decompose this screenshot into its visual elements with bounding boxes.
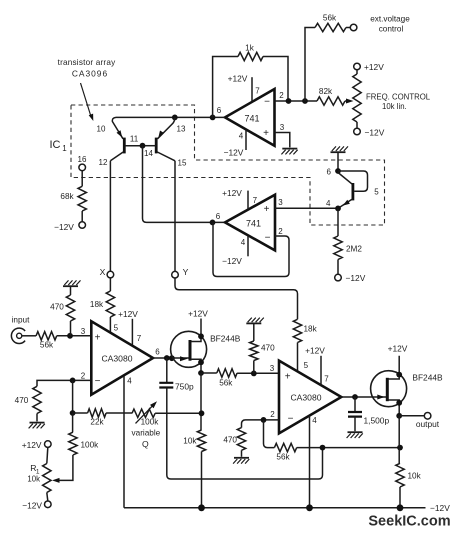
svg-text:3: 3 — [280, 123, 285, 132]
wire: 741 #1 output (pin 6) to transistor array emitters — [116, 116, 225, 118]
svg-text:BF244B: BF244B — [210, 334, 241, 344]
resistor 56k (input) — [22, 332, 92, 350]
dashed outline: transistor array CA3096 (IC1) — [71, 105, 385, 225]
svg-text:1k: 1k — [245, 44, 255, 53]
wire: pin 4 down to -12V rail — [123, 376, 125, 508]
node: pin 2 junction (CA3080 #1) — [70, 372, 86, 384]
resistor 100k (to R1 wiper) — [56, 413, 99, 480]
svg-text:transistor array: transistor array — [58, 58, 117, 67]
annotation: transistor array CA3096 with arrow — [58, 58, 117, 121]
wire: pin2 node up to 56k ext control — [305, 28, 315, 102]
svg-text:−12V: −12V — [430, 503, 450, 513]
svg-text:BF244B: BF244B — [412, 373, 443, 383]
wire: 741 #1 pin 3 to ground — [275, 133, 290, 148]
svg-text:10k: 10k — [183, 437, 197, 446]
node: output / 750p junction — [164, 355, 175, 361]
wire: feedback loop right side down to pin 2 — [263, 57, 288, 102]
svg-text:7: 7 — [253, 196, 258, 205]
svg-text:82k: 82k — [319, 87, 333, 96]
terminal -12V (freq control bottom) — [354, 128, 385, 138]
pin 4 label (CA3080 #1) — [127, 377, 132, 386]
node: feedback junction — [70, 410, 76, 416]
svg-text:6: 6 — [327, 168, 332, 177]
resistor 56k (ext voltage control) — [315, 14, 350, 32]
terminal +12V (R1 top) — [22, 440, 51, 450]
node: pin 3 junction (CA3080 #2) — [251, 364, 275, 376]
node: pin 2 junction — [261, 417, 267, 423]
transistor Q1 (array pins 10,11,12) PNP left — [97, 117, 143, 167]
wire: bases to 741 #2 output — [143, 146, 226, 223]
pin 2 label (741 #2) — [278, 227, 283, 236]
svg-text:100k: 100k — [141, 418, 160, 427]
ground (741 #1 pin 3) — [281, 149, 297, 155]
node: feedback / pin 2 junction — [286, 98, 292, 104]
ground (1,500p) — [347, 432, 363, 438]
svg-text:18k: 18k — [304, 325, 318, 334]
transistor Q3 (array pins 6,4,5) diode-connected — [326, 168, 379, 209]
node: common base junction (pins 11,14) — [140, 143, 146, 149]
JFET T2 BF244B output buffer — [371, 356, 443, 416]
resistor 470 (CA3080 #2 pin 3 to ground) — [250, 323, 276, 373]
ground (above Q3 collector) — [331, 146, 349, 152]
svg-text:+12V: +12V — [22, 440, 42, 450]
svg-text:ext.voltage: ext.voltage — [370, 15, 410, 24]
node: output divider junction — [397, 445, 403, 451]
pin 6 label (741 #1) — [217, 106, 222, 115]
svg-text:Y: Y — [183, 267, 189, 277]
svg-text:16: 16 — [78, 155, 87, 164]
resistor 10k (output divider) — [396, 463, 422, 508]
svg-text:56k: 56k — [40, 341, 54, 350]
ground (470 at pin 2) — [29, 423, 45, 429]
op-amp U3 741 (lower, points left) — [225, 195, 275, 251]
svg-text:−12V: −12V — [54, 222, 74, 232]
svg-text:13: 13 — [177, 125, 186, 134]
node: T2 source crosses circle — [396, 400, 402, 406]
potentiometer R1 10k — [27, 447, 51, 501]
svg-text:2: 2 — [270, 410, 275, 419]
resistor 82k (to freq control wiper) — [317, 87, 354, 105]
JFET T1 BF244B source follower — [171, 319, 241, 374]
svg-text:CA3080: CA3080 — [101, 354, 132, 364]
svg-text:100k: 100k — [81, 441, 100, 450]
resistor 2M2 — [334, 208, 363, 274]
resistor 56k (T1 source to CA3080 #2 pin 3) — [201, 369, 279, 388]
wire: collector pin 12 down to node X — [109, 161, 111, 271]
wire: CA3080 #1 pin 2 to 470 — [37, 380, 91, 386]
node: CA3080 #1 pin 3 junction — [67, 327, 86, 339]
svg-text:6: 6 — [217, 106, 222, 115]
node: Q3 emitter junction (pin 4) — [335, 206, 341, 212]
svg-text:SeekIC.com: SeekIC.com — [368, 514, 450, 530]
svg-text:15: 15 — [178, 159, 187, 168]
pin 3 label (741 #1) — [280, 123, 285, 132]
svg-text:14: 14 — [144, 149, 153, 158]
svg-text:56k: 56k — [219, 379, 233, 388]
svg-text:741: 741 — [244, 114, 259, 124]
svg-text:+12V: +12V — [364, 62, 384, 72]
capacitor 750p — [159, 358, 322, 479]
transistor Q2 (array pins 13,14,15) PNP right — [143, 117, 187, 167]
op-amp U2 741 (upper, points left) — [225, 89, 275, 146]
potentiometer FREQ CONTROL 10k lin — [353, 70, 431, 128]
svg-text:+: + — [263, 128, 269, 139]
svg-text:3: 3 — [270, 364, 275, 373]
resistor 470 (pin 2 to ground) — [15, 386, 42, 421]
svg-text:2: 2 — [279, 91, 284, 100]
svg-text:741: 741 — [246, 219, 261, 229]
pin 7 +12V supply (741 #1) — [228, 74, 261, 102]
resistor 68k (pin 16 to -12V) — [60, 171, 86, 222]
pin 7 +12V supply (CA3080 #2) — [305, 346, 329, 386]
node Y terminal — [172, 267, 189, 278]
wire: feedback loop left side (pin 6 up) — [213, 57, 238, 118]
svg-text:+12V: +12V — [222, 188, 242, 198]
resistor 56k (pin 2 feedback from output divider) — [264, 420, 401, 462]
wire: T1 source trunk down — [200, 373, 202, 430]
svg-text:−12V: −12V — [222, 256, 242, 266]
resistor 22k — [73, 409, 132, 427]
pin 5 label (CA3080 #2) — [304, 361, 309, 370]
node: drain crosses circle — [198, 333, 204, 339]
svg-text:+12V: +12V — [188, 309, 208, 319]
svg-text:−: − — [265, 233, 271, 244]
terminal: array pin 16 — [78, 155, 87, 171]
svg-text:output: output — [416, 419, 440, 429]
svg-text:7: 7 — [137, 334, 142, 343]
+12V label (T1 drain) — [188, 309, 208, 319]
svg-text:variable: variable — [132, 429, 161, 438]
variable resistor 100k (Q adjust) — [132, 401, 202, 449]
svg-text:10k: 10k — [408, 472, 422, 481]
svg-text:4: 4 — [127, 377, 132, 386]
svg-text:+: + — [264, 204, 270, 215]
label IC1 — [50, 139, 68, 153]
svg-text:2: 2 — [81, 372, 86, 381]
wire: output node down through divider — [398, 416, 400, 464]
svg-text:11: 11 — [130, 135, 139, 144]
wiper arrow into R1 — [52, 478, 60, 483]
node: 100k variable junction — [199, 410, 205, 416]
svg-text:−12V: −12V — [365, 128, 385, 138]
svg-text:470: 470 — [261, 344, 275, 353]
node: emitter junction on top wire — [172, 115, 178, 121]
svg-text:CA3096: CA3096 — [72, 69, 108, 79]
svg-text:+: + — [285, 372, 291, 383]
svg-text:4: 4 — [241, 238, 246, 247]
svg-text:6: 6 — [216, 212, 221, 221]
node: T1 source / 56k junction — [198, 370, 204, 376]
wire: pin 2 node down to feedback line — [72, 380, 74, 413]
input jack terminal — [11, 316, 30, 344]
wire: 741 #1 inverting input (pin 2) node — [275, 100, 318, 102]
svg-text:56k: 56k — [323, 14, 337, 23]
capacitor 1,500p — [348, 397, 389, 431]
wire: collector pin 15 down to node Y — [174, 161, 176, 271]
svg-text:+: + — [95, 333, 101, 344]
svg-text:5: 5 — [374, 188, 379, 197]
svg-text:+12V: +12V — [228, 74, 248, 84]
resistor 470 (CA3080 #2 pin 2 to ground) — [223, 428, 245, 457]
svg-text:−12V: −12V — [224, 148, 244, 158]
node: source crosses circle — [198, 359, 204, 365]
resistor 18k (node X to pin 5) — [90, 278, 115, 332]
node: 741 #2 output junction (pin 6) — [210, 212, 221, 225]
pin 4 -12V supply (741 #1) — [224, 130, 246, 158]
pin 5 label (CA3080 #1) — [114, 324, 119, 333]
resistor 470 (pin 3 to ground) — [50, 286, 75, 336]
svg-text:2M2: 2M2 — [346, 245, 362, 254]
svg-text:+12V: +12V — [388, 344, 408, 354]
watermark SeekIC.com — [368, 514, 450, 530]
svg-text:470: 470 — [50, 303, 64, 312]
output terminal — [399, 413, 440, 430]
wire: 741 #2 pin 3 to transistor Q3 emitter — [275, 207, 338, 209]
wire: CA3080 #1 output to JFET gate — [153, 357, 189, 359]
ground (above 470 at pin 3 of CA3080 #2) — [246, 318, 264, 324]
wire: CA3080 #2 output to T2 gate — [341, 396, 386, 398]
node: 741 #1 output junction — [210, 115, 216, 121]
svg-text:1: 1 — [62, 144, 67, 153]
svg-text:−: − — [95, 376, 101, 387]
svg-text:7: 7 — [255, 87, 260, 96]
svg-text:6: 6 — [155, 348, 160, 357]
pin 4 label (CA3080 #2) — [312, 416, 317, 425]
svg-text:470: 470 — [15, 396, 29, 405]
svg-text:12: 12 — [99, 158, 108, 167]
terminal -12V (2M2) — [335, 273, 366, 283]
ground (470 at pin 2) — [233, 458, 249, 464]
op-amp U4 CA3080 (points right) — [279, 361, 341, 434]
resistor 1k (feedback of 741 #1) — [238, 44, 263, 61]
label -12V rail — [430, 503, 450, 513]
svg-text:56k: 56k — [276, 453, 290, 462]
svg-text:4: 4 — [239, 132, 244, 141]
wire: pin 4 down to -12V rail — [309, 416, 311, 508]
wire: ground to Q3 collector node — [337, 152, 339, 171]
terminal: ext.voltage control — [350, 15, 410, 34]
terminal -12V (R1 bottom) — [22, 501, 51, 511]
svg-text:+12V: +12V — [118, 309, 138, 319]
node: output junction — [396, 413, 402, 419]
svg-text:−12V: −12V — [346, 273, 366, 283]
node: pin 2 / 56k branch junction — [302, 98, 308, 104]
wire: 741 #2 feedback loop pin 2 to pin 6 — [213, 222, 289, 276]
wire: -12V rail — [124, 507, 426, 509]
node: rail junction (trunk) — [198, 504, 205, 511]
svg-text:−: − — [264, 97, 270, 108]
resistor 18k (node Y to pin 5 of CA3080 #2) — [293, 319, 317, 371]
svg-text:1,500p: 1,500p — [364, 416, 390, 426]
svg-text:X: X — [100, 267, 106, 277]
node: rail junction (10k) — [397, 504, 404, 511]
svg-text:input: input — [12, 316, 30, 325]
pin 7 +12V supply (741 #2) — [222, 188, 257, 209]
resistor 10k (trunk) — [183, 430, 205, 508]
svg-text:FREQ. CONTROL: FREQ. CONTROL — [366, 93, 431, 102]
pin 3 label (741 #2) — [278, 198, 283, 207]
terminal -12V (68k) — [54, 222, 85, 232]
svg-text:22k: 22k — [90, 418, 104, 427]
svg-text:−12V: −12V — [22, 501, 42, 511]
svg-text:3: 3 — [278, 198, 283, 207]
op-amp U1 CA3080 (points right) — [91, 321, 153, 394]
svg-text:5: 5 — [304, 361, 309, 370]
svg-text:10: 10 — [97, 125, 106, 134]
+12V label (T2 drain) — [388, 344, 408, 354]
svg-text:750p: 750p — [175, 382, 194, 392]
node X terminal — [100, 267, 114, 278]
svg-text:5: 5 — [114, 324, 119, 333]
svg-text:4: 4 — [326, 199, 331, 208]
svg-text:3: 3 — [81, 327, 86, 336]
wire: CA3080 #2 pin 2 network — [242, 410, 280, 428]
pin 7 +12V supply (CA3080 #1) — [118, 309, 142, 345]
node: rail junction (pin 4 CA3080 #2) — [306, 504, 313, 511]
svg-text:10k: 10k — [27, 475, 40, 484]
svg-text:Q: Q — [142, 439, 149, 449]
svg-text:4: 4 — [312, 416, 317, 425]
svg-text:2: 2 — [278, 227, 283, 236]
wire: node Y to 18k — [175, 278, 298, 319]
node: 750p return junction — [320, 445, 326, 451]
svg-text:10k lin.: 10k lin. — [382, 102, 407, 111]
pin 6 label (CA3080 #1) — [155, 348, 160, 357]
svg-text:IC: IC — [50, 139, 61, 151]
svg-text:−: − — [288, 414, 294, 425]
terminal +12V (freq control top) — [354, 62, 385, 72]
svg-text:470: 470 — [223, 436, 237, 445]
svg-text:+12V: +12V — [305, 346, 325, 356]
ground (above 470 input) — [63, 280, 81, 286]
node: output / 1500p junction — [352, 394, 358, 400]
svg-text:68k: 68k — [60, 192, 74, 201]
svg-text:7: 7 — [324, 375, 329, 384]
node: T2 drain crosses circle — [396, 372, 402, 378]
svg-text:CA3080: CA3080 — [290, 393, 321, 403]
svg-text:control: control — [379, 25, 404, 34]
svg-text:18k: 18k — [90, 300, 104, 309]
pin 4 -12V supply (741 #2) — [222, 236, 248, 266]
pin 2 label (741 #1) — [279, 91, 284, 100]
